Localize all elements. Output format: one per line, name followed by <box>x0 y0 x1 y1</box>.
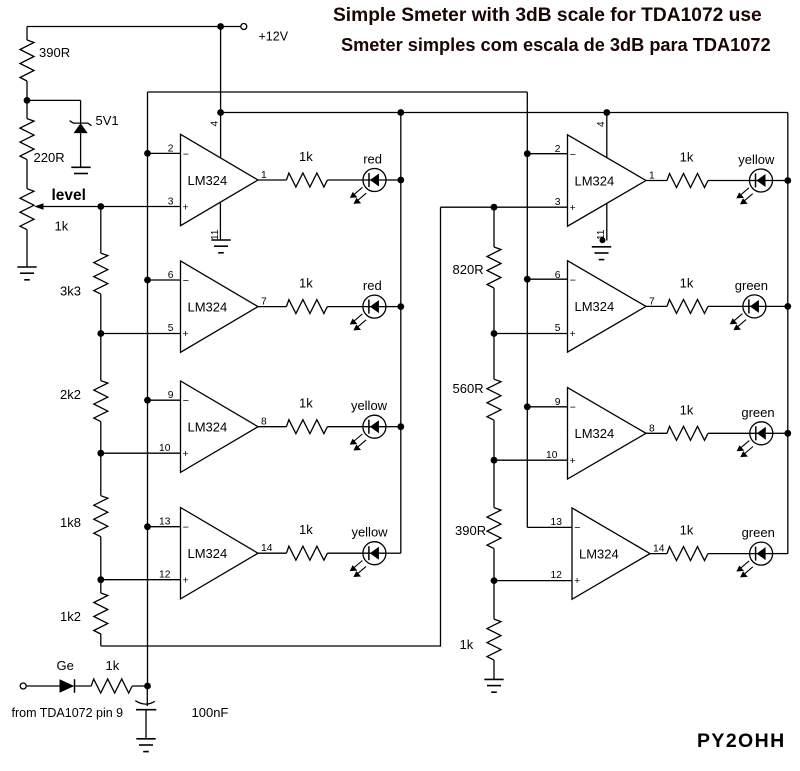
ground pin 11 left <box>211 240 230 253</box>
svg-text:LM324: LM324 <box>575 173 615 188</box>
svg-text:390R: 390R <box>39 45 70 60</box>
op-amp U1a LM324 (right stage 1) <box>568 135 647 226</box>
op-amp U1d LM324 (left stage 4) <box>181 508 259 599</box>
wire LED to bus (right stage 2) <box>766 305 788 307</box>
ground right ladder <box>484 679 503 692</box>
wire bus to pin 13 left <box>148 526 181 528</box>
svg-text:level: level <box>52 187 86 204</box>
resistor R 3k3 <box>100 207 102 254</box>
svg-text:4: 4 <box>210 121 221 127</box>
wire tap to pin 5 right <box>494 333 568 335</box>
capacitor C 100nF <box>146 686 148 706</box>
wire bus to pin 9 right <box>527 406 567 408</box>
LED D2 red (left) <box>363 295 386 318</box>
wire node to zener branch <box>27 99 81 101</box>
resistor R 390R right <box>493 460 495 507</box>
LED D4 green (right) <box>750 542 773 565</box>
junction tap 820R/560R <box>491 330 498 337</box>
wire LED to bus (left stage 1) <box>386 179 401 181</box>
op-amp U1c LM324 (right stage 3) <box>568 388 647 479</box>
wire pin 4 right supply <box>606 113 608 159</box>
svg-text:2: 2 <box>555 144 561 155</box>
wire resistor to LED (left stage 3) <box>327 426 363 428</box>
wire output to resistor (left stage 4) <box>258 552 286 554</box>
wire output to resistor (right stage 2) <box>646 305 667 307</box>
junction wiper / ladder top <box>97 203 104 210</box>
svg-text:5: 5 <box>168 323 174 334</box>
wire bus to pin 13 right <box>527 526 572 528</box>
resistor R 820R <box>493 207 495 247</box>
svg-text:6: 6 <box>555 270 561 281</box>
resistor R 1k output (left stage 2) <box>286 300 327 314</box>
wire resistor to LED (right stage 2) <box>708 305 743 307</box>
junction LED bus (left stage 2) <box>397 303 404 310</box>
svg-text:yellow: yellow <box>351 398 388 413</box>
pot wiper arrow <box>34 203 43 210</box>
svg-text:Simple Smeter with 3dB scale f: Simple Smeter with 3dB scale for TDA1072… <box>333 5 762 26</box>
wire tap to pin 12 left <box>101 579 181 581</box>
potentiometer R 1k level <box>20 189 34 230</box>
wire LED to bus (left stage 4) <box>386 552 401 554</box>
junction bus pin2 left <box>144 150 151 157</box>
wire resistor to LED (left stage 2) <box>327 306 363 308</box>
svg-text:220R: 220R <box>34 150 65 165</box>
svg-text:+: + <box>574 575 580 587</box>
wire +12V vertical drop <box>220 27 222 113</box>
junction bus pin6 right <box>524 276 531 283</box>
junction tap 1k8/1k2 <box>97 576 104 583</box>
wire resistor to LED (right stage 3) <box>708 432 750 434</box>
svg-text:green: green <box>741 405 774 420</box>
svg-text:+: + <box>570 202 576 214</box>
svg-text:1k: 1k <box>680 402 694 417</box>
svg-text:PY2OHH: PY2OHH <box>697 730 786 752</box>
svg-text:10: 10 <box>546 450 558 461</box>
svg-text:10: 10 <box>159 443 171 454</box>
wire +12V top rail horizontal <box>27 26 221 28</box>
resistor R 1k8 <box>100 453 102 496</box>
resistor R 1k output (left stage 4) <box>286 546 327 560</box>
svg-text:4: 4 <box>596 121 607 127</box>
wire output to resistor (right stage 4) <box>650 553 667 555</box>
svg-text:6: 6 <box>168 270 174 281</box>
wire output to resistor (right stage 3) <box>646 432 667 434</box>
resistor R 1k output (right stage 3) <box>667 426 708 440</box>
wire pin 11 left to ground <box>219 202 221 240</box>
svg-text:LM324: LM324 <box>575 426 615 441</box>
svg-text:12: 12 <box>159 570 171 581</box>
wire pin 11 right to ground <box>606 204 608 241</box>
svg-text:+12V: +12V <box>259 30 289 44</box>
svg-text:from TDA1072 pin 9: from TDA1072 pin 9 <box>12 706 124 720</box>
junction LED bus (left stage 3) <box>397 423 404 430</box>
svg-text:+: + <box>183 202 189 214</box>
wire diode to resistor <box>75 685 92 687</box>
svg-text:LM324: LM324 <box>579 546 619 561</box>
junction ladder top right <box>491 204 498 211</box>
op-amp U1c LM324 (left stage 3) <box>181 381 259 472</box>
svg-text:−: − <box>183 522 189 534</box>
wire right LED bus <box>787 113 789 555</box>
wire tap to pin 12 right <box>494 580 572 582</box>
op-amp U1b LM324 (left stage 2) <box>181 261 259 352</box>
wire output to resistor (left stage 3) <box>258 426 286 428</box>
wire bus to pin 2 right <box>527 153 567 155</box>
resistor R 1k output (right stage 4) <box>667 547 708 561</box>
wire LED to bus (left stage 3) <box>386 426 401 428</box>
svg-text:−: − <box>183 395 189 407</box>
wire left LED bus <box>400 113 402 554</box>
LED D2 green (right) <box>743 295 766 318</box>
junction bus pin9 left <box>144 397 151 404</box>
wire bus to pin 2 left <box>148 152 181 154</box>
resistor R 560R <box>493 334 495 380</box>
svg-text:3k3: 3k3 <box>60 284 81 299</box>
wire bus to pin 6 right <box>527 278 567 280</box>
LED D4 yellow (left) <box>363 542 386 565</box>
svg-text:1k: 1k <box>299 149 313 164</box>
wire bus to pin 6 left <box>148 279 181 281</box>
wire tap to pin 10 left <box>101 452 181 454</box>
resistor R 1k bottom right <box>493 581 495 620</box>
wire resistor to LED (left stage 4) <box>327 552 363 554</box>
svg-text:5V1: 5V1 <box>96 113 119 128</box>
wire resistor to LED (right stage 1) <box>708 180 750 182</box>
svg-text:LM324: LM324 <box>188 420 228 435</box>
svg-text:1k: 1k <box>680 150 694 165</box>
resistor R 220R <box>26 100 28 118</box>
junction LED bus (left stage 1) <box>397 177 404 184</box>
junction 390R/220R node <box>24 97 31 104</box>
junction bus pin2 right <box>524 150 531 157</box>
wire output to resistor (left stage 2) <box>258 306 286 308</box>
ground pin 11 right <box>592 247 611 260</box>
svg-text:1k2: 1k2 <box>60 609 81 624</box>
junction bus pin6 left <box>144 277 151 284</box>
resistor R 1k2 <box>100 580 102 593</box>
svg-text:LM324: LM324 <box>575 299 615 314</box>
svg-text:+: + <box>183 575 189 587</box>
svg-text:−: − <box>570 402 576 414</box>
wire +12V distribution rail <box>221 112 788 114</box>
resistor R 1k output (left stage 1) <box>286 173 327 187</box>
terminal input open circle <box>20 683 26 689</box>
wire LED to bus (right stage 4) <box>773 553 788 555</box>
junction bus pin9 right <box>524 403 531 410</box>
svg-text:13: 13 <box>159 517 171 528</box>
wire ladder bottom to right section <box>101 207 441 646</box>
wire LED to bus (right stage 1) <box>773 180 788 182</box>
junction rail / pin4 left <box>217 109 224 116</box>
wire resistor to LED (left stage 1) <box>327 179 363 181</box>
wire input to diode <box>26 685 59 687</box>
svg-text:11: 11 <box>210 229 221 240</box>
zener diode D 5V1 <box>70 121 92 126</box>
junction rail / pin4 right <box>603 109 610 116</box>
junction LED bus (right stage 1) <box>784 177 791 184</box>
svg-text:560R: 560R <box>453 381 484 396</box>
svg-text:−: − <box>574 522 580 534</box>
svg-text:820R: 820R <box>453 262 484 277</box>
wire bus to pin 9 left <box>148 399 181 401</box>
svg-text:100nF: 100nF <box>192 705 229 720</box>
terminal +12V open circle <box>241 24 247 30</box>
wire wiper to op-amp pin 3 <box>43 206 181 208</box>
svg-text:1k: 1k <box>299 276 313 291</box>
svg-text:12: 12 <box>551 570 563 581</box>
svg-text:LM324: LM324 <box>188 546 228 561</box>
junction detector node <box>144 683 151 690</box>
ground pot <box>17 267 36 280</box>
svg-text:−: − <box>570 275 576 287</box>
svg-text:1k: 1k <box>460 637 474 652</box>
resistor R 390R top <box>26 27 28 41</box>
LED D3 green (right) <box>750 422 773 445</box>
junction +12V rail <box>217 23 224 30</box>
svg-text:−: − <box>183 275 189 287</box>
resistor R 1k output (right stage 1) <box>667 174 708 188</box>
svg-text:Ge: Ge <box>57 658 74 673</box>
wire +12V terminal stub <box>221 26 242 28</box>
svg-text:red: red <box>363 278 382 293</box>
op-amp U1a LM324 (left stage 1) <box>181 134 259 225</box>
LED D1 yellow (right) <box>750 169 773 192</box>
LED D3 yellow (left) <box>363 415 386 438</box>
resistor R 2k2 <box>100 334 102 381</box>
junction tap 3k3/2k2 <box>97 330 104 337</box>
diode D Ge germanium <box>60 679 75 693</box>
junction bus pin13 left <box>144 523 151 530</box>
resistor R 1k input <box>91 679 132 693</box>
svg-text:1k: 1k <box>55 219 69 234</box>
svg-text:yellow: yellow <box>351 525 388 540</box>
resistor R 1k output (left stage 3) <box>286 420 327 434</box>
svg-text:3: 3 <box>555 197 561 208</box>
svg-text:+: + <box>183 448 189 460</box>
wire pin 4 left supply <box>220 113 222 159</box>
svg-text:9: 9 <box>168 390 174 401</box>
svg-text:1k: 1k <box>299 396 313 411</box>
wire LED to bus (left stage 2) <box>386 306 401 308</box>
svg-text:yellow: yellow <box>738 152 775 167</box>
svg-text:+: + <box>570 328 576 340</box>
svg-text:1k: 1k <box>680 275 694 290</box>
wire signal bus right vertical <box>526 92 528 527</box>
svg-text:−: − <box>570 149 576 161</box>
svg-text:5: 5 <box>555 323 561 334</box>
junction LED bus (right stage 2) <box>784 303 791 310</box>
junction tap 390R/1k <box>491 577 498 584</box>
wire resistor to cap node <box>132 685 147 687</box>
svg-text:+: + <box>570 455 576 467</box>
junction pin 11 right ground <box>600 237 606 243</box>
svg-text:−: − <box>183 148 189 160</box>
svg-text:1k: 1k <box>106 658 120 673</box>
op-amp U1d LM324 (right stage 4) <box>572 508 650 599</box>
svg-text:LM324: LM324 <box>188 173 228 188</box>
wire tap to pin 10 right <box>494 459 568 461</box>
svg-text:2k2: 2k2 <box>60 387 81 402</box>
svg-text:Smeter simples com escala de 3: Smeter simples com escala de 3dB para TD… <box>341 35 771 55</box>
wire tap to pin 5 left <box>101 333 181 335</box>
svg-text:red: red <box>363 152 382 167</box>
svg-text:390R: 390R <box>455 523 486 538</box>
svg-text:9: 9 <box>555 397 561 408</box>
resistor R 1k output (right stage 2) <box>667 299 708 313</box>
svg-text:+: + <box>183 328 189 340</box>
LED D1 red (left) <box>363 169 386 192</box>
wire output to resistor (right stage 1) <box>646 180 667 182</box>
wire signal bus top <box>148 91 528 93</box>
svg-text:green: green <box>742 525 775 540</box>
wire to pin 3 right <box>441 206 568 208</box>
svg-text:green: green <box>735 278 768 293</box>
op-amp U1b LM324 (right stage 2) <box>568 261 647 352</box>
svg-text:2: 2 <box>168 144 174 155</box>
svg-text:1k: 1k <box>680 523 694 538</box>
junction tap 560R/390R <box>491 457 498 464</box>
junction LED bus (right stage 3) <box>784 430 791 437</box>
wire signal bus left vertical <box>147 92 149 686</box>
wire LED to bus (right stage 3) <box>773 432 788 434</box>
junction tap 2k2/1k8 <box>97 450 104 457</box>
wire resistor to LED (right stage 4) <box>708 553 750 555</box>
ground zener (2-bar) <box>71 167 90 173</box>
svg-text:1k8: 1k8 <box>60 515 81 530</box>
junction rail / left LED bus <box>397 109 404 116</box>
svg-text:1k: 1k <box>299 522 313 537</box>
svg-text:LM324: LM324 <box>188 299 228 314</box>
ground capacitor <box>136 739 155 752</box>
svg-text:3: 3 <box>168 197 174 208</box>
wire output to resistor (left stage 1) <box>258 179 286 181</box>
svg-text:13: 13 <box>551 517 563 528</box>
